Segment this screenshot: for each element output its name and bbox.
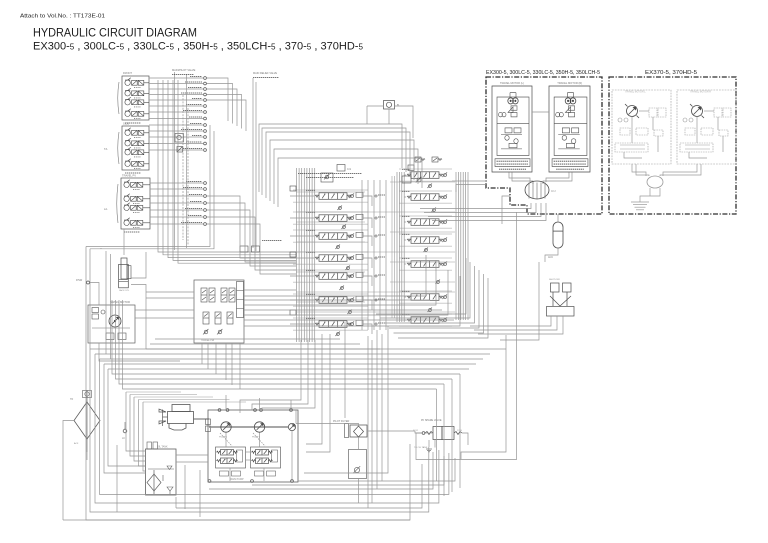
arm R spool check	[442, 261, 447, 266]
wire pilot port row	[149, 136, 203, 138]
wire top loop	[278, 158, 422, 207]
swing makeup check 2	[92, 314, 99, 319]
wire band B to mid	[119, 300, 444, 384]
aux R spool check	[442, 219, 447, 224]
travel motor R EX370 relief b	[689, 118, 693, 122]
wire pilot pump to top	[295, 410, 297, 424]
wire travel pilot row	[150, 209, 203, 211]
center joint port line	[528, 183, 530, 199]
pilot valve side bottom label	[125, 172, 141, 174]
signal spool lower	[215, 312, 221, 324]
wire band C 01	[155, 338, 340, 340]
wire cluster drop a	[306, 334, 322, 444]
trunk line CVR right	[457, 172, 459, 320]
port node	[204, 136, 207, 139]
wire pilot collector	[163, 80, 296, 255]
wire cluster horizontal	[296, 291, 455, 293]
wire inter-group vertical	[367, 180, 369, 330]
trunk line CVL	[309, 168, 311, 342]
wire to arm 2 spool	[290, 299, 314, 301]
inline valve glyph	[175, 134, 184, 143]
jack piston line	[119, 279, 129, 281]
wire tank return horizontal	[134, 396, 213, 398]
port node	[204, 77, 207, 80]
wire travel pilot row	[150, 195, 203, 197]
wire mid right leg	[459, 374, 461, 488]
pump bottom port	[208, 480, 211, 483]
travel motor R EX370 wire bottom	[689, 152, 707, 158]
wire band B horizontal	[104, 363, 476, 365]
travel L spool comp valve	[356, 320, 363, 325]
pilot valve front outline	[122, 76, 149, 120]
wire top loop	[262, 128, 406, 195]
signal spool vertical	[229, 288, 235, 302]
wire cluster horizontal left	[296, 301, 365, 303]
travel motor L EX370 dashed outline	[612, 90, 671, 164]
travel motor L EX370 wire valve down	[652, 117, 654, 130]
wire top vertical a	[252, 78, 254, 248]
wire to boom 2 spool	[290, 195, 314, 197]
boom 2 spool port node	[375, 195, 377, 197]
wire pilot collector	[168, 80, 296, 258]
wire PF to tank sym	[428, 440, 430, 447]
wire valve box down 1b	[215, 343, 217, 374]
pilot valve side reducing valve 1	[125, 128, 149, 138]
port label	[186, 104, 202, 106]
check in reducing block	[324, 174, 329, 179]
wire main U loop	[86, 247, 410, 521]
oil cooler diamond	[74, 402, 100, 439]
travel pilot valve reducing valve 2	[124, 194, 150, 204]
travel right spool gallery top	[399, 168, 452, 170]
travel motor R EX300 cb valve	[572, 128, 579, 133]
travel motor L EX370 wire motor to valve	[639, 110, 649, 112]
port block	[290, 310, 296, 315]
travel motor R EX300 legend text	[556, 168, 584, 170]
aux R spool gallery bottom	[399, 227, 452, 229]
travel L spool port node	[375, 323, 377, 325]
wire accumulator drop	[131, 285, 146, 350]
travel right spool label	[402, 168, 410, 170]
travel motor L EX300 outline	[492, 86, 532, 172]
PF port	[422, 432, 425, 435]
center joint port line	[532, 183, 534, 199]
wire pilot pump to filter	[296, 424, 359, 426]
svg-text:FRONT: FRONT	[123, 71, 132, 75]
regulator piston	[272, 450, 278, 462]
wire pilot to center	[207, 84, 233, 124]
PF tank symbol	[426, 449, 432, 452]
boom 1 spool gallery top	[293, 269, 368, 271]
swing spool gallery bottom	[399, 302, 452, 304]
trunk line CVL	[296, 168, 298, 342]
trunk line CVR right	[467, 172, 469, 320]
wire tank area drop	[184, 465, 186, 509]
center joint port line	[536, 183, 538, 199]
bucket 2 spool check	[442, 194, 447, 199]
wire shutoff down	[470, 316, 551, 326]
aux spool	[315, 233, 351, 240]
wire regulator1 down	[229, 468, 231, 481]
travel motor R EX370 check block	[719, 130, 728, 136]
wire pilot relief drop	[358, 495, 360, 503]
port label	[183, 187, 202, 189]
svg-text:PF SPARE VALVE: PF SPARE VALVE	[421, 419, 442, 422]
inter-row check	[335, 244, 340, 249]
boom 1 spool label	[306, 269, 315, 271]
boom 2 spool check valve	[349, 193, 354, 198]
bucket 2 spool label	[402, 190, 410, 192]
wire main U loop	[100, 359, 449, 494]
travel right spool check	[442, 172, 447, 177]
signal spool lower	[203, 312, 209, 324]
signal tall block	[237, 282, 244, 318]
case drain check 2	[252, 246, 260, 252]
signal spool lower	[227, 312, 233, 324]
trunk line CVR left	[398, 172, 400, 322]
wire joint down c	[428, 203, 541, 217]
wire cluster out 3	[244, 309, 442, 311]
boom R spool	[407, 237, 443, 244]
wire travel L to joint 370	[632, 164, 646, 176]
wire tank return horizontal	[126, 391, 181, 393]
filter bypass	[345, 424, 349, 438]
wire mid loop corner	[376, 258, 466, 314]
arm R spool label	[402, 257, 410, 259]
wire joint down b	[424, 203, 536, 213]
wire pilot port row	[149, 88, 203, 90]
wire to boom 1 spool	[290, 275, 314, 277]
pump sub comp 2	[267, 471, 276, 476]
wire inter-group vertical	[379, 180, 381, 330]
travel motor L EX300 cb valve	[514, 128, 521, 133]
wire pilot port row	[149, 94, 203, 96]
trunk line CVR right	[462, 172, 464, 320]
arm 2 spool port label	[378, 298, 385, 300]
pilot valve side lever bracket	[118, 132, 119, 164]
wire cluster out 2	[244, 260, 436, 305]
arm R spool gallery top	[399, 257, 452, 259]
wire cluster mid vertical	[391, 176, 393, 318]
aux spool comp valve	[356, 232, 363, 237]
travel motor R EX370 wire motor to valve	[704, 110, 714, 112]
trunk line CVR left	[396, 172, 398, 322]
swing relief R	[118, 333, 126, 340]
pilot shutoff valve	[547, 283, 575, 316]
travel motor R EX300 legend box	[552, 159, 588, 167]
port label	[192, 135, 202, 137]
wire cluster drop c	[344, 322, 346, 418]
port label	[189, 116, 202, 118]
wire main U loop	[95, 354, 439, 503]
CVR inter check	[423, 247, 428, 252]
trunk line CVL	[306, 168, 308, 342]
travel pilot valve reducing valve 1	[124, 180, 150, 190]
wire tank return	[130, 395, 146, 457]
wire left to tank low 2	[108, 369, 146, 466]
inter-row check	[339, 285, 344, 290]
wire travel pilot to cluster	[207, 203, 297, 262]
arm R spool gallery bottom	[399, 269, 452, 271]
wire cooler to bottom	[116, 445, 118, 512]
aux spool out wire	[363, 236, 372, 246]
drain stack line 370	[631, 201, 649, 203]
wire to aux spool	[290, 235, 314, 237]
travel motor R EX300 divider	[554, 122, 587, 124]
travel motor L EX370 relief a	[618, 118, 622, 122]
wire tank return	[126, 392, 146, 451]
pump top port	[254, 409, 257, 412]
CVR inter check	[431, 207, 436, 212]
wire cluster out 0	[244, 255, 426, 296]
PF spare valve	[425, 427, 462, 440]
boom 1 spool check valve	[349, 273, 354, 278]
travel motor R EX300 legend text	[554, 160, 587, 162]
wire travel pilot row	[150, 216, 203, 218]
port node	[204, 99, 207, 102]
wire top vertical b	[255, 82, 257, 251]
wire cooler to bottom stub	[86, 452, 88, 460]
engine to pump shaft	[194, 418, 210, 420]
wire pilot pump down	[291, 431, 293, 481]
bucket spool check valve	[349, 255, 354, 260]
wire reg cross	[246, 451, 251, 453]
wire swing down	[99, 343, 180, 361]
wire tank return	[134, 397, 146, 461]
wire solenoid right	[395, 106, 414, 138]
wire to arm R spool	[404, 263, 406, 265]
wire cluster horizontal right	[390, 261, 455, 263]
bucket spool gallery top	[293, 251, 368, 253]
spare spool gallery top	[399, 313, 452, 315]
wire valve box down 0	[201, 343, 203, 364]
arm 2 spool out wire	[363, 300, 372, 310]
wire cluster horizontal left	[296, 271, 365, 273]
wire pilot collector	[178, 80, 296, 263]
travel motor L EX370 wire bottom	[624, 152, 642, 158]
pump bottom port	[291, 480, 294, 483]
bucket 2 spool	[407, 194, 443, 201]
travel motor L EX370 check block	[654, 130, 663, 136]
wire tank return horizontal	[139, 399, 230, 401]
boom 2 spool gallery top	[293, 189, 368, 191]
travel motor L EX300 shuttle valve	[511, 112, 517, 116]
wire cluster to pump 2	[252, 340, 308, 410]
svg-text:OIL TANK: OIL TANK	[157, 446, 168, 449]
spare spool	[407, 317, 443, 324]
wire port to swing box	[90, 283, 100, 306]
arm 2 spool gallery bottom	[293, 305, 368, 307]
wire inter-group vertical	[385, 180, 387, 330]
pilot valve side reducing valve 3	[125, 147, 149, 157]
case drain label	[262, 240, 282, 242]
aux spool port label	[378, 234, 385, 236]
port node	[204, 111, 207, 114]
accumulator pilot	[553, 222, 563, 248]
cluster top caption bar 2	[306, 177, 354, 179]
solenoid valve SI	[384, 101, 395, 110]
svg-text:LK: LK	[122, 437, 125, 440]
svg-text:JACK STL: JACK STL	[119, 289, 130, 292]
wire top loop	[274, 149, 418, 204]
travel pilot valve outline	[121, 178, 150, 229]
bucket spool port node	[375, 257, 377, 259]
signal spool vertical	[201, 288, 207, 302]
wire valve box down 3	[239, 343, 241, 389]
wire travel L to joint	[512, 173, 533, 185]
pump top port	[290, 409, 293, 412]
wire pilot port row	[149, 99, 203, 101]
pump sub comp 2	[232, 471, 241, 476]
wire cluster out 6	[244, 276, 460, 326]
wire top loop	[259, 124, 402, 192]
wire pilot to center	[207, 95, 242, 129]
svg-text:TRAVEL MOTOR L: TRAVEL MOTOR L	[625, 91, 646, 94]
port node	[204, 195, 207, 198]
tank strainer	[147, 470, 161, 494]
travel motor R EX300 motor line	[567, 92, 573, 94]
port label	[181, 129, 202, 131]
CVR top check	[416, 177, 422, 183]
travel motor L EX300 cb valve	[505, 128, 512, 133]
port label	[185, 208, 202, 210]
center joint port line	[544, 183, 546, 199]
travel right spool	[407, 172, 443, 179]
svg-text:Attach to Vol.No. : TT173E-01: Attach to Vol.No. : TT173E-01	[20, 14, 105, 20]
travel motor L EX370 shuttle	[636, 128, 648, 135]
travel motor L EX300 motor line	[510, 92, 516, 94]
wire boxA exit 1	[452, 180, 486, 182]
jack side pipe	[127, 266, 131, 279]
boom 1 spool port node	[375, 275, 377, 277]
pump sub comp	[220, 471, 229, 476]
wire tank to bottom	[175, 497, 177, 508]
regulator box	[216, 447, 246, 468]
port node	[204, 182, 207, 185]
travel motor L EX300 legend text	[497, 160, 529, 162]
wire mid right leg	[436, 389, 438, 481]
port node	[204, 130, 207, 133]
port label	[181, 222, 202, 224]
jack piston line 2	[119, 281, 129, 283]
travel motor R EX300 inner frame	[554, 97, 587, 155]
inter-row check	[345, 265, 350, 270]
wire joint to accumulator	[557, 214, 559, 222]
inline valve glyph 2	[177, 147, 183, 153]
port node	[204, 93, 207, 96]
trunk line CVR left	[401, 172, 403, 322]
CVR inter check	[427, 183, 432, 188]
wire to bucket 2 spool	[404, 196, 406, 198]
bucket spool label	[306, 251, 315, 253]
travel pilot valve lever bracket	[117, 184, 118, 223]
wire accumulator down	[545, 248, 558, 262]
aux R spool gallery top	[399, 215, 452, 217]
wire joint 370 down b	[640, 188, 660, 202]
wire joint down d	[432, 203, 546, 221]
travel motor R EX370 wire right down	[722, 136, 724, 152]
boom 2 spool label	[306, 189, 315, 191]
inter-row check	[337, 205, 342, 210]
pilot valve side reducing valve 4	[125, 159, 149, 169]
wire acc drop left	[500, 262, 539, 340]
wire travel pilot to cluster	[207, 224, 297, 274]
travel motor R EX300 relief	[565, 107, 570, 113]
wire mid vertical c	[376, 330, 378, 489]
port block	[290, 252, 296, 257]
arm 2 spool check valve	[349, 297, 354, 302]
wire pilot drop left b	[90, 131, 214, 249]
pump sub comp	[255, 471, 264, 476]
arm 2 spool port node	[375, 299, 377, 301]
bucket spool out wire	[363, 258, 372, 268]
travel motor R EX300 check	[571, 139, 576, 144]
wire pilot port row	[149, 83, 203, 85]
swing check circle	[101, 310, 105, 314]
inter-row check	[347, 309, 352, 314]
travel motor L EX300 line	[501, 134, 522, 136]
wire mid vertical d	[381, 334, 383, 481]
travel motor R EX370 wire down	[696, 117, 698, 144]
wire right mid drop	[461, 335, 506, 459]
travel motor R EX370 motor circle	[690, 104, 704, 118]
travel motor L EX370 valve B	[658, 108, 666, 117]
wire cluster horizontal right	[390, 281, 455, 283]
port node	[204, 209, 207, 212]
travel pilot valve bottom label	[124, 231, 140, 233]
wire valve box to cluster 3	[244, 289, 296, 291]
svg-text:SWING MOTOR: SWING MOTOR	[110, 300, 130, 304]
travel L spool gallery top	[293, 317, 368, 319]
travel L spool check valve	[349, 321, 354, 326]
regulator spool A	[217, 450, 238, 456]
wire mid loop corner	[385, 266, 475, 323]
arm 2 spool gallery top	[293, 293, 368, 295]
signal spool vertical	[221, 288, 227, 302]
pump top port	[260, 409, 263, 412]
wire cluster out 5	[244, 319, 454, 321]
main pump 2	[254, 422, 264, 432]
wire joint 370 down	[649, 188, 651, 196]
signal check 1	[203, 329, 208, 334]
wire travel R to joint	[543, 173, 572, 185]
pilot valve side reducing valve 2	[125, 138, 149, 148]
travel motor R EX370 valve A	[714, 108, 722, 117]
wire pilot to center	[207, 100, 247, 131]
travel motor R EX370 cb inner 2	[685, 148, 710, 150]
regulator spool B	[217, 458, 238, 464]
wire pilot to center	[207, 78, 229, 121]
top comp C1	[337, 165, 345, 172]
port label	[185, 81, 202, 83]
wire pump bottom out	[298, 458, 455, 481]
wire travel R to joint 370 b	[660, 164, 701, 176]
trunk line CVL	[301, 168, 303, 342]
wire mid loop corner	[398, 278, 488, 338]
bucket spool port label	[378, 256, 385, 258]
cluster top caption bar	[298, 173, 362, 175]
aux spool gallery top	[293, 229, 368, 231]
arm 2 spool comp valve	[356, 296, 363, 301]
LK port	[123, 429, 127, 433]
port label	[186, 141, 202, 143]
wire band C 0	[146, 348, 380, 350]
port block	[290, 186, 296, 191]
port label	[192, 98, 202, 100]
wire pilot collector	[158, 80, 296, 252]
wire travel pilot to cluster	[207, 210, 297, 266]
pump top port	[218, 409, 221, 412]
